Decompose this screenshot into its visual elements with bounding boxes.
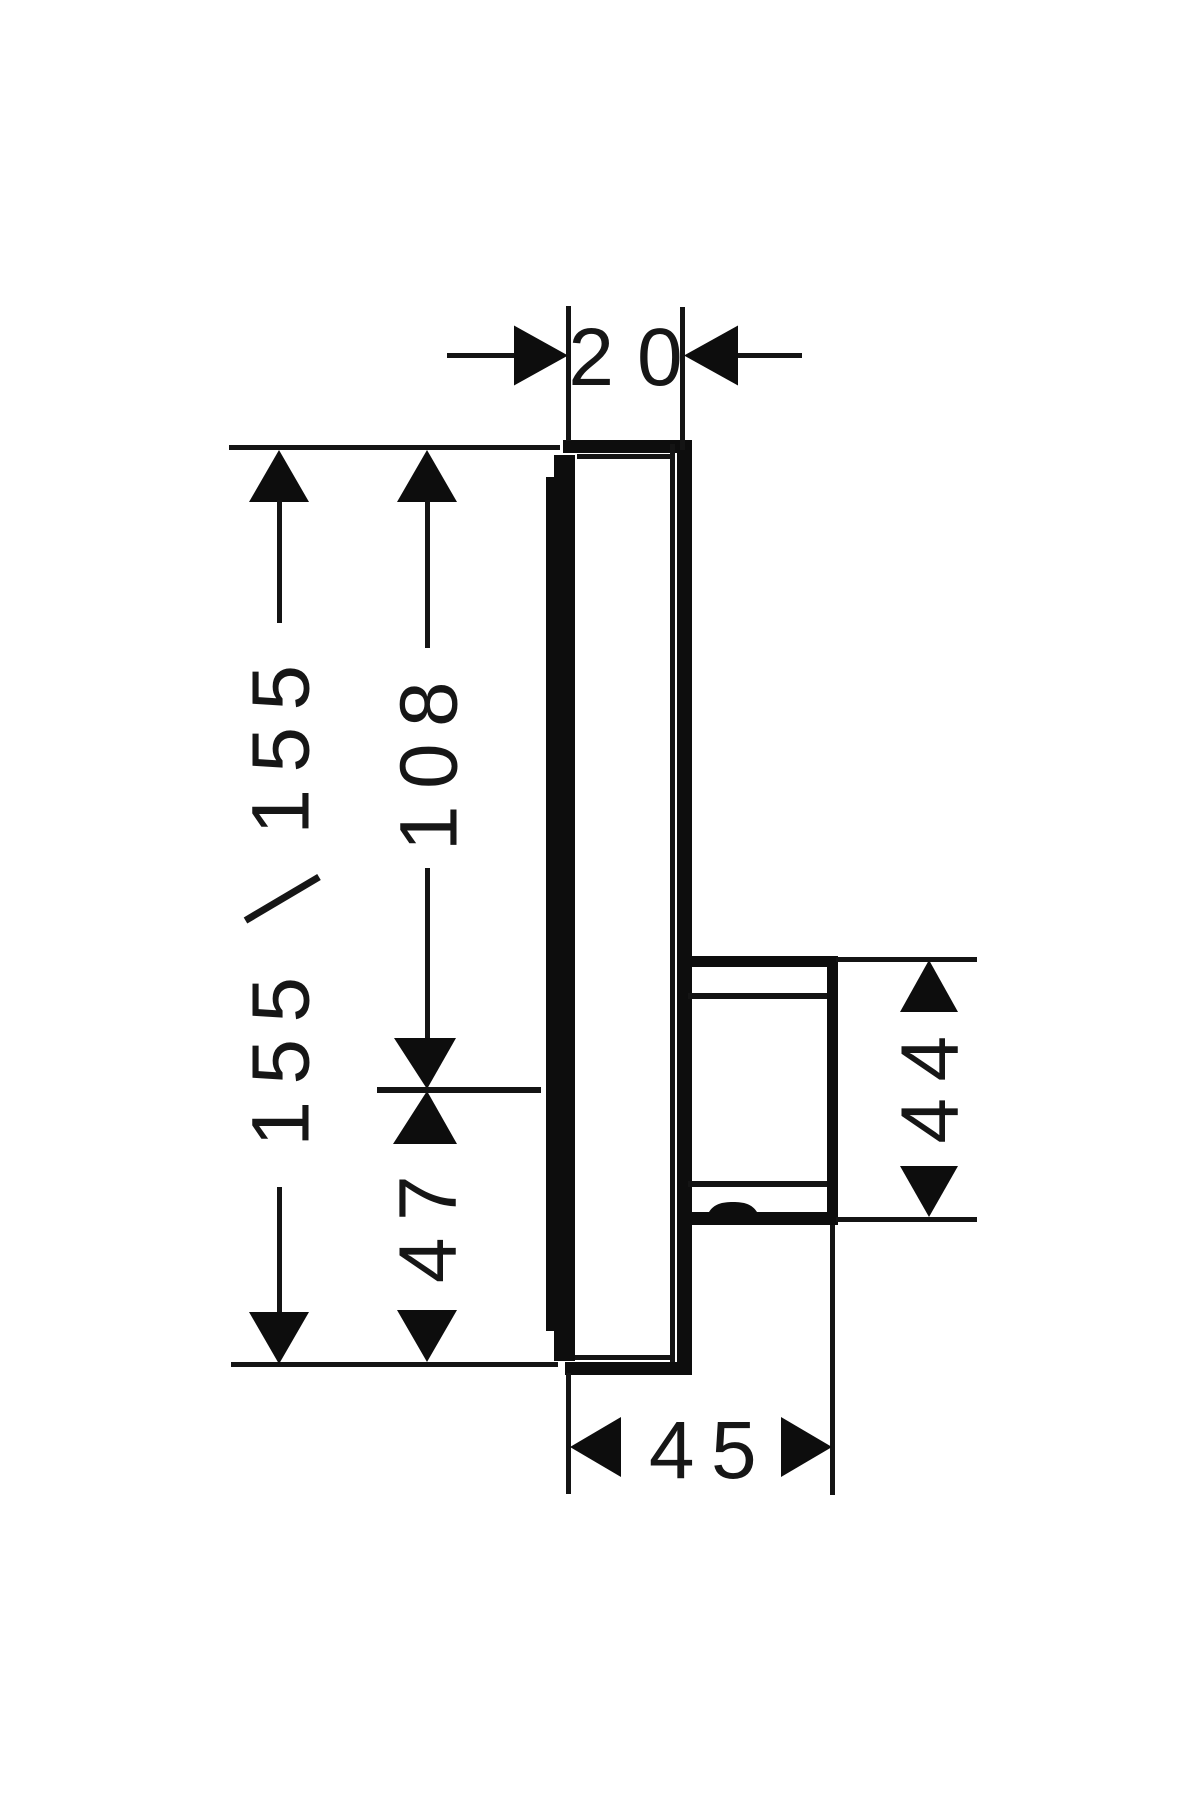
valve body top inner line xyxy=(688,993,827,999)
dim 155 top arrowhead xyxy=(249,450,309,502)
dim 47 bottom arrowhead xyxy=(397,1310,457,1362)
dim 45 left extension line xyxy=(566,1373,571,1494)
centerline through valve axis xyxy=(377,1087,541,1093)
dim 44 up arrowhead xyxy=(900,960,958,1012)
dim 20 right arrow line xyxy=(735,353,802,358)
dim 20 right extension line xyxy=(680,307,685,450)
dim 155 top extension line xyxy=(229,445,560,450)
valve body bottom inner line xyxy=(688,1181,827,1187)
valve body top edge xyxy=(688,956,836,967)
dim 155 bottom arrowhead xyxy=(249,1312,309,1364)
dim 20 right arrowhead xyxy=(684,326,738,386)
dim 20 left arrowhead xyxy=(514,326,568,386)
dim 108 value label xyxy=(383,665,474,851)
dim label slash xyxy=(246,877,320,921)
plate bottom edge xyxy=(565,1355,688,1375)
svg-text:45: 45 xyxy=(649,1405,773,1496)
svg-text:20: 20 xyxy=(568,312,705,403)
valve body right edge xyxy=(827,956,838,1225)
dim 45 right extension line xyxy=(830,1225,835,1495)
dim 44 top extension line xyxy=(836,957,977,962)
svg-text:44: 44 xyxy=(884,1019,975,1143)
dim 44 value label xyxy=(884,1019,975,1143)
hourglass arrowheads at centerline xyxy=(393,1038,457,1144)
dim 44 down arrowhead xyxy=(900,1166,958,1217)
svg-text:155: 155 xyxy=(236,648,327,834)
dim 108 top line xyxy=(425,500,430,648)
dim 155 bottom line xyxy=(277,1187,282,1312)
dim 45 right arrowhead xyxy=(781,1417,832,1477)
dim 155 top line xyxy=(277,500,282,623)
dim 155/155 value label xyxy=(236,648,327,834)
dim 44 bottom extension line xyxy=(836,1217,977,1222)
dim 20 value label xyxy=(568,312,705,403)
svg-text:155: 155 xyxy=(236,960,327,1146)
plate left flange bar xyxy=(546,455,575,1361)
dim 108 top arrowhead xyxy=(397,450,457,502)
svg-text:108: 108 xyxy=(383,665,474,851)
dim 155 second value label xyxy=(236,960,327,1146)
plate top edge xyxy=(563,440,688,459)
dim 20 left arrow line xyxy=(447,353,520,358)
svg-text:47: 47 xyxy=(383,1159,474,1283)
dim 47 value label xyxy=(383,1159,474,1283)
dim 20 left extension line xyxy=(566,306,571,441)
valve body bottom edge with squiggle xyxy=(688,1202,836,1225)
plate right edge xyxy=(670,440,692,1375)
dim 155 bottom extension line xyxy=(231,1362,558,1367)
dim 45 left arrowhead xyxy=(570,1417,621,1477)
dim 108 lower line xyxy=(425,868,430,1040)
dim 45 value label xyxy=(649,1405,773,1496)
